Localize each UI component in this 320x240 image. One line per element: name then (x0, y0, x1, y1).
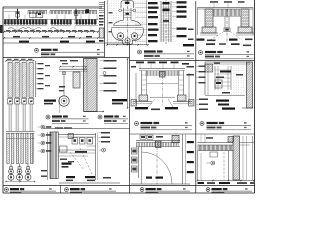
panel C arch dark mark (125, 2, 130, 4)
sheet bottom border (3, 192, 255, 194)
panel I right wing (188, 73, 190, 103)
panel D dark blobs (163, 2, 170, 4)
panel B ladder lines (99, 2, 104, 4)
panel H band bottom cap (85, 111, 105, 113)
panel A drop ticks (16, 26, 18, 32)
panel K mid small labels (60, 159, 67, 160)
panel E left foot (202, 27, 216, 33)
panel M beam lines (198, 142, 234, 144)
panel F strip gap lines (13, 63, 15, 98)
panel L bottom line (131, 183, 190, 185)
panel C dotted texture (108, 0, 146, 45)
panel L right edge (182, 135, 184, 185)
panel B text rows (99, 15, 104, 17)
panel H band (84, 59, 98, 112)
panel E center line (226, 9, 228, 43)
panel M inner verticals (197, 151, 199, 181)
bottom title L (140, 188, 144, 192)
panel G lamp circle (59, 96, 69, 106)
panel D right labels (172, 1, 176, 3)
panel M beam comb (197, 145, 199, 150)
panel C scroll circle right (131, 33, 137, 39)
title 1 ceiling detail (35, 48, 39, 52)
panel F lamp circles (10, 169, 12, 181)
panel E bottom labels row1 (197, 39, 205, 41)
panel F bottom dim (6, 181, 35, 183)
panel L swing arc (142, 152, 173, 184)
panel A fixture boxes (30, 13, 36, 18)
panel I top label leaders (139, 64, 141, 69)
panel A left edge section mark (0, 25, 2, 33)
panel J right hatch post (247, 62, 253, 108)
panel I diag leaders (148, 99, 155, 107)
panel E right foot (238, 27, 252, 33)
panel K wall top labels (55, 127, 63, 128)
panel K bottom line (59, 182, 120, 184)
sheet right border (254, 0, 256, 193)
panel L vertical edges (138, 147, 140, 178)
panel J dotted column (232, 64, 245, 95)
panel K step lines 2 (87, 145, 97, 147)
panel C centerline (126, 0, 128, 45)
panel A left shelf line (4, 11, 16, 13)
panel C left small marks (109, 12, 113, 13)
panel M top leaders (200, 135, 202, 143)
panel I left wing (135, 73, 137, 103)
divider F|K title zone (60, 186, 62, 194)
panel C cup flare (114, 20, 142, 25)
panel J center bold label (220, 71, 231, 73)
divider bottom title strip (3, 185, 255, 187)
panel L bottom bold marks (146, 177, 152, 179)
panel A band underline (4, 25, 47, 27)
panel I center blob (160, 72, 166, 78)
panel C bell outline (112, 28, 144, 45)
panel H vert dim (127, 59, 129, 108)
divider left|middle col (129, 43, 131, 193)
sheet left border (2, 7, 4, 193)
panel A hanger verticals (8, 15, 10, 20)
panel A hanger left (17, 9, 19, 19)
panel M top dark box (228, 137, 234, 143)
panel K vertical pair (95, 133, 97, 180)
panel C base line (107, 44, 148, 46)
panel K right labels (99, 132, 101, 134)
panel I center span (147, 83, 178, 85)
panel H bottom bold label (112, 99, 127, 101)
panel F comb caps (6, 131, 35, 133)
panel E diag leaders (210, 32, 224, 41)
panel C scroll center drop (125, 38, 130, 43)
panel C side curls (119, 9, 122, 12)
panel F comb tie line (6, 138, 35, 140)
panel I right post (178, 71, 180, 96)
title 2 ceiling moulding detail (138, 50, 142, 54)
panel D verticals (160, 1, 162, 42)
panel J left labels (197, 65, 199, 67)
panel G dim text (60, 60, 67, 61)
panel A top slab line (3, 6, 102, 8)
panel A wave ornament left (8, 28, 26, 31)
panel D rungs (161, 3, 171, 5)
panel M small white box (210, 152, 218, 157)
panel L centerline (156, 147, 158, 184)
divider panelA|panelC (104, 1, 106, 58)
panel I outside labels (187, 66, 195, 68)
panel E side edges (197, 8, 199, 36)
panel A total dim text (19, 41, 29, 43)
panel F lower small marks (41, 170, 47, 171)
panel M bottom line (198, 180, 255, 182)
panel M right band (233, 136, 240, 180)
panel J grid frame (214, 66, 216, 90)
title J ceiling detail 3 (200, 122, 204, 126)
divider title1 bottom (3, 57, 130, 59)
title G small detail (46, 115, 50, 119)
panel B label (99, 40, 104, 42)
panel L top band (136, 140, 180, 142)
panel K white box (60, 146, 68, 152)
panel E hanging rod (224, 16, 226, 28)
panel G small marks (59, 86, 65, 88)
panel A dim line 1 (4, 31, 98, 33)
panel F circled numbers (38, 126, 41, 128)
panel H right labels (100, 60, 104, 62)
panel G lamp stem (63, 71, 65, 95)
bottom title K (65, 188, 69, 192)
panel F bold text mid (44, 100, 56, 102)
panel A wave ornament right (50, 28, 62, 31)
panel D stray marks (188, 29, 194, 31)
panel K bottom labels (66, 176, 75, 178)
panel L left stepped blocks (132, 148, 138, 154)
panel K top lines (58, 134, 96, 136)
panel J foot line (242, 107, 253, 109)
panel I top chord (139, 68, 185, 70)
panel F vertical dim (35, 61, 37, 97)
panel A comb band 2 (50, 10, 72, 12)
panel M circled ref (206, 162, 211, 164)
panel K diagonal leaders (70, 152, 84, 170)
panel F right labels upper (36, 63, 38, 65)
panel G dim line (60, 66, 86, 68)
bottom title F (5, 188, 9, 192)
panel F lower dim line (47, 132, 49, 180)
panel D bottom dark text (183, 44, 194, 46)
panel M bottom label rows (198, 182, 205, 184)
panel I left post (141, 71, 143, 96)
divider mid-left row2 bottom (44, 128, 130, 130)
title 3 ceiling detail 2 (199, 51, 203, 55)
panel A hanger right (75, 9, 77, 19)
panel J bottom-left labels (197, 98, 199, 100)
panel E left post (205, 9, 213, 27)
panel J left column (204, 62, 206, 95)
panel E bottom labels row2 (206, 43, 215, 45)
panel F lamp connectors (10, 164, 12, 168)
panel E right post (241, 9, 249, 27)
panel L end block (172, 135, 179, 143)
panel K circled ref (99, 149, 102, 151)
panel C side borders (107, 0, 109, 46)
divider row1 right bottom (130, 60, 255, 62)
panel I top labels (136, 62, 144, 64)
panel K step hatch block (68, 134, 74, 139)
title H small detail (98, 115, 102, 119)
panel C arch top (121, 1, 134, 8)
panel J mid labels (216, 77, 224, 79)
panel K soffit lines (59, 149, 96, 151)
panel I comb (145, 71, 147, 76)
panel A dim line 2 (4, 37, 98, 39)
panel A scallop moulding band (4, 18, 98, 20)
panel F comb bars (7, 133, 9, 163)
divider row1 left bottom (3, 42, 130, 44)
panel D centerline (165, 1, 167, 45)
bottom title M (206, 188, 210, 192)
panel J dark boxes (215, 80, 222, 88)
title I cove detail (135, 122, 139, 126)
panel K dark label mid (62, 163, 72, 165)
divider right row2 bottom (130, 133, 255, 135)
panel E top labels (210, 1, 218, 3)
panel F end boxes (8, 99, 13, 105)
panel H small circle (103, 72, 106, 75)
panel J bottom center bold (216, 100, 229, 102)
panel F top dim (6, 60, 34, 62)
panel I bottom bold labels (135, 107, 148, 109)
panel G hanging hatch rect (73, 72, 80, 88)
panel M right verticals (242, 136, 244, 180)
panel A comb band 3 (74, 10, 97, 12)
panel J base line (205, 95, 245, 97)
panel F hatched strips (8, 63, 12, 98)
panel C right labels bold (135, 2, 148, 4)
panel K dentil boxes (72, 138, 78, 145)
panel F drop lines (8, 104, 10, 131)
panel C shaft (123, 8, 125, 20)
panel C scroll circle left (117, 33, 123, 39)
panel A dim text row 1 (6, 30, 10, 31)
panel E top slab (198, 7, 254, 9)
panel E top coffer comb (213, 9, 215, 16)
divider col2|col3 (195, 1, 197, 193)
panel A wave ornament mid (26, 28, 41, 30)
panel K wall band (50, 132, 58, 179)
panel A dim text row 2 (13, 36, 20, 38)
panel D dot texture (158, 13, 175, 42)
panel L center block (156, 141, 162, 148)
panel L top label boxes (140, 135, 146, 139)
panel B hatch block (99, 28, 104, 38)
panel M right steps (240, 142, 255, 144)
panel A comb band 1 (28, 10, 47, 12)
panel G ceiling lines (59, 68, 88, 70)
panel L right bold dashes (187, 141, 194, 143)
panel J top lines (205, 61, 250, 63)
